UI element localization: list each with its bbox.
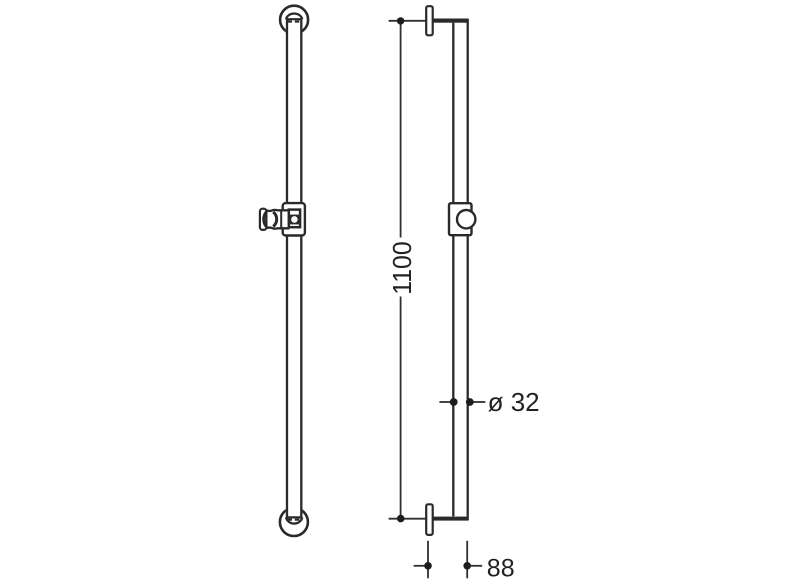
dimension o32 leader stub right [470, 401, 486, 403]
front view slider body [283, 203, 305, 235]
side view slider body [449, 203, 472, 235]
front view bottom cap seam dashes [288, 519, 300, 521]
front view bottom end cap dome [286, 517, 302, 523]
slider release button dark band [290, 215, 299, 225]
front view bottom cap chord line [286, 516, 302, 518]
dimension o32 left dot [450, 398, 458, 406]
dimension 88 left stub [414, 565, 428, 567]
front view top cap seam dashes [288, 20, 300, 22]
dimension 88 right extension line [466, 541, 468, 579]
front view rail tube right edge [300, 19, 302, 517]
holder cone left crescent [264, 212, 267, 227]
front view top end cap dome [286, 14, 302, 20]
side view bottom arm [433, 517, 469, 521]
side view holder knob circle [457, 210, 475, 228]
side view rail tube right edge [467, 19, 469, 521]
front view top cap chord line [286, 18, 302, 20]
front view rail tube body [286, 19, 303, 517]
holder cone bottom edge [266, 228, 289, 229]
dimension 1100 bottom extension line [389, 518, 468, 520]
slider release button ball [291, 216, 298, 223]
holder cone right crescent [273, 212, 276, 227]
holder end cap [260, 209, 267, 230]
dimension 88 left extension line [427, 541, 429, 579]
dimension 1100 top dot [397, 17, 404, 24]
dimension 1100 vertical line lower segment [400, 297, 402, 519]
svg-text:1100: 1100 [387, 241, 417, 295]
svg-text:ø 32: ø 32 [488, 387, 540, 417]
dimension 88 right stub [467, 565, 482, 567]
side view rail tube left edge [452, 23, 454, 517]
svg-text:88: 88 [487, 555, 515, 583]
side view top wall flange [426, 6, 433, 35]
holder cone top edge [266, 210, 289, 211]
front view top mounting flange [280, 6, 308, 34]
dimension o32 leader stub left [439, 401, 453, 403]
dimension 88 right dot [463, 562, 471, 570]
side view top arm [433, 19, 469, 23]
dimension 1100 bottom dot [397, 515, 405, 523]
dimension 88 left dot [424, 562, 432, 570]
front view bottom mounting flange [280, 508, 308, 536]
side view bottom wall flange [426, 504, 433, 535]
holder body white mask [266, 209, 289, 229]
dimension o32 right dot [466, 398, 474, 406]
front view rail tube left edge [286, 19, 288, 517]
holder clamp inner line [280, 211, 282, 229]
slider release button housing [289, 210, 300, 228]
dimension 1100 vertical line upper segment [400, 21, 402, 238]
dimension 1100 top extension line [389, 20, 469, 22]
